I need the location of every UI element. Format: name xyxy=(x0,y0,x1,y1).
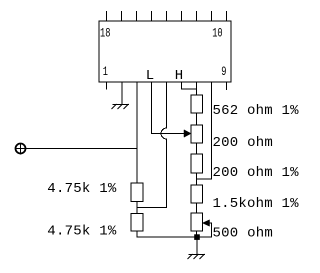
svg-text:1: 1 xyxy=(103,64,108,79)
svg-text:10: 10 xyxy=(212,26,222,41)
resistor R2 200 ohm (pot) xyxy=(191,125,203,143)
svg-text:18: 18 xyxy=(100,26,111,41)
svg-text:4.75k 1%: 4.75k 1% xyxy=(47,223,117,239)
ground (output node) xyxy=(189,254,206,256)
pin 2 wire xyxy=(121,82,123,104)
svg-text:562 ohm 1%: 562 ohm 1% xyxy=(213,103,300,119)
resistor R5 500 ohm (pot) xyxy=(191,213,203,231)
pin 8 wire xyxy=(197,82,212,179)
pins 6-7 (H) bracket xyxy=(182,82,197,95)
svg-text:200 ohm: 200 ohm xyxy=(213,135,273,151)
pin 5 wire with hop over wiper wire xyxy=(137,82,167,208)
resistor R3 200 ohm xyxy=(191,154,203,173)
wiper arrow into R2 xyxy=(184,130,191,137)
wire to bottom node xyxy=(196,231,198,237)
svg-text:L: L xyxy=(146,68,154,84)
wire xyxy=(196,143,198,154)
pin 3 wire xyxy=(136,82,138,183)
IC top pin stubs (pins 18..10) xyxy=(107,11,227,21)
ground (pin 2) xyxy=(113,104,130,106)
wire between 4.75k resistors xyxy=(136,202,138,214)
svg-text:1.5kohm 1%: 1.5kohm 1% xyxy=(213,196,300,212)
IC U1 body xyxy=(99,21,231,82)
wiper arrow into R5 xyxy=(203,220,210,226)
resistor R4 1.5kohm xyxy=(191,185,203,203)
svg-text:H: H xyxy=(175,68,183,84)
wire xyxy=(196,113,198,125)
wire from input terminal xyxy=(27,148,138,150)
pin 4 (L) wiper wire xyxy=(152,82,185,134)
resistor RA 4.75k upper xyxy=(131,183,143,202)
svg-text:500 ohm: 500 ohm xyxy=(213,226,273,242)
wire xyxy=(196,203,198,213)
pin 1 stub xyxy=(106,82,108,90)
pin 9 stub xyxy=(226,82,228,90)
svg-text:9: 9 xyxy=(221,64,226,79)
input terminal circle xyxy=(15,143,27,155)
wire arrow tail R5 xyxy=(197,223,212,237)
wire RB bottom to node xyxy=(137,231,197,237)
svg-text:4.75k 1%: 4.75k 1% xyxy=(47,181,117,197)
wire node to ground xyxy=(196,237,198,254)
resistor RB 4.75k lower xyxy=(131,214,143,232)
junction dot at output node xyxy=(194,234,200,240)
resistor R1 562 ohm xyxy=(191,95,203,113)
wire xyxy=(196,173,198,185)
svg-text:200 ohm 1%: 200 ohm 1% xyxy=(213,165,300,181)
